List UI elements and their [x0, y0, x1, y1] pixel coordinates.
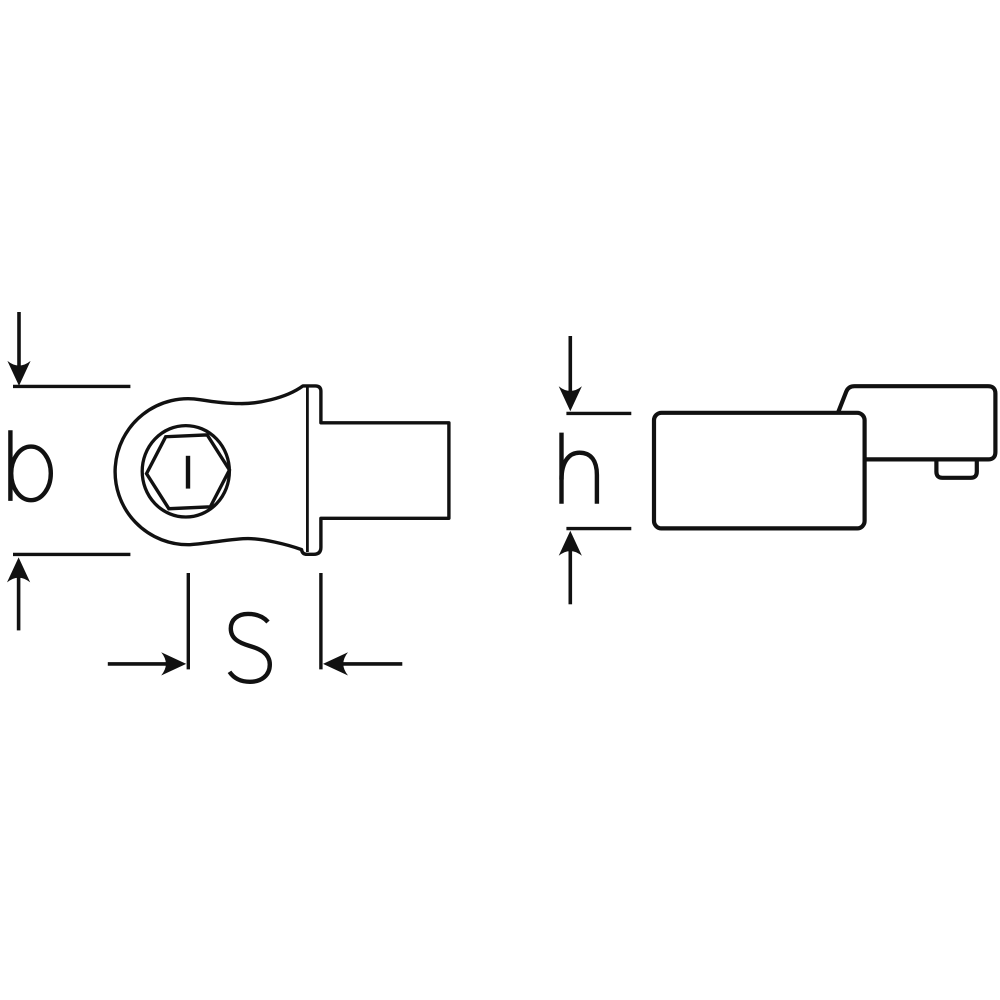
dimension S: left extension line — [187, 573, 190, 669]
dimension h: top line — [566, 412, 631, 415]
dimension b: up arrow — [17, 575, 21, 630]
dimension b: down arrow — [17, 312, 21, 368]
dimension b: bottom line — [13, 553, 130, 556]
dimension h: down arrow — [568, 336, 572, 393]
bore circle — [142, 426, 229, 517]
collar face line — [306, 386, 309, 552]
dimension b: label b — [10, 430, 50, 501]
side view: head plate — [820, 386, 996, 459]
dimension h: up arrow — [568, 549, 572, 604]
dimension b: top line — [13, 385, 130, 388]
hex slot mark — [186, 456, 190, 489]
hex socket — [147, 435, 230, 509]
detent tab — [936, 459, 976, 477]
dimension S: left arrow — [108, 662, 167, 666]
dimension S: label S — [230, 614, 270, 682]
dimension h: label h — [562, 433, 597, 504]
front view: ring head with collar and rectangular plug outline — [115, 386, 449, 554]
plug body rectangle (side view) — [654, 413, 865, 529]
dimension S: right extension line — [319, 573, 322, 669]
dimension h: bottom line — [566, 527, 631, 530]
dimension S: right arrow — [342, 662, 402, 666]
